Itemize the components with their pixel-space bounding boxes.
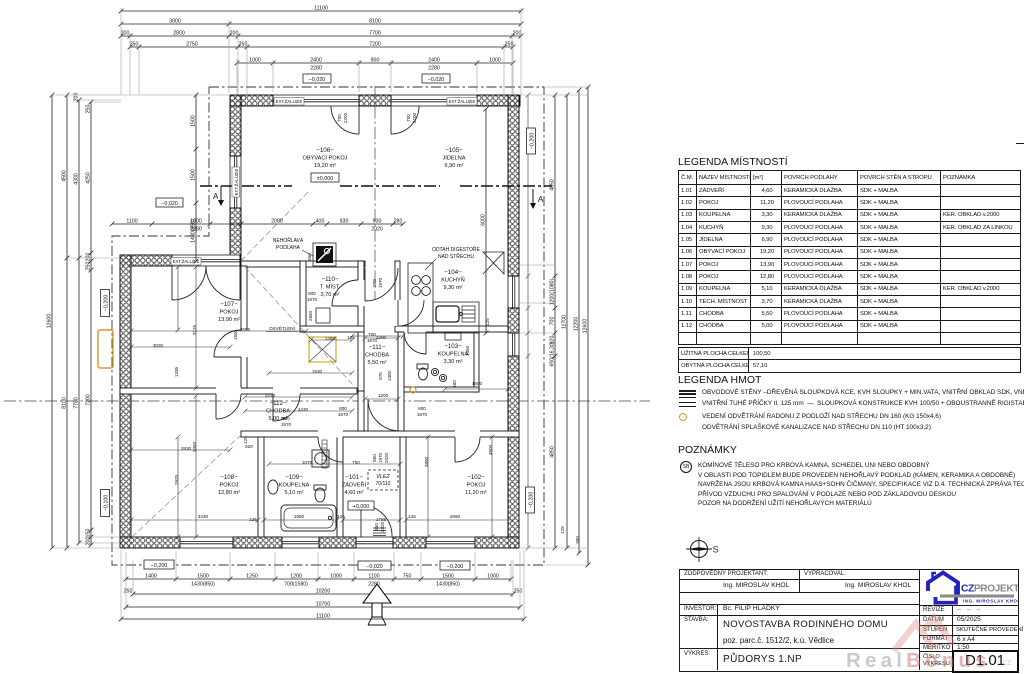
svg-text:800: 800 [308,291,316,296]
svg-text:1400: 1400 [145,574,157,580]
partition room 1.07 right [241,266,247,388]
svg-text:1970: 1970 [281,422,292,427]
svg-text:300: 300 [575,536,580,544]
door corridor bottom [368,399,400,431]
svg-text:−0,020: −0,020 [366,564,383,570]
radon vent symbol (orange circle) [679,413,687,421]
svg-text:400: 400 [452,380,457,388]
level label &#8722;0,020 [156,198,183,207]
north arrow [363,584,391,625]
axis line [4,400,650,402]
dimension chain interior left vertical [194,93,199,264]
partition hall 1.11 right lower [398,332,404,431]
washbasin bath 1.09 [268,480,278,494]
svg-text:2400: 2400 [310,58,322,64]
door gap kitchen [395,300,401,326]
double door left wing [172,266,240,300]
svg-text:1200(1080): 1200(1080) [550,278,556,305]
svg-text:900: 900 [371,58,380,64]
door gap room 1.08 [216,388,241,395]
fireplace stove [313,243,336,266]
label fireproof floor [273,236,313,256]
highlight box tech room [309,337,336,362]
ext blinds label top-left [274,98,304,106]
roof hip diagonal 2 [132,435,241,537]
svg-text:10700: 10700 [316,602,331,608]
svg-text:11700: 11700 [562,315,568,329]
dimension chain left 4500-8100 [65,93,70,551]
svg-text:1000: 1000 [330,574,342,580]
svg-text:5,50 m²: 5,50 m² [368,360,387,366]
svg-text:700: 700 [550,317,556,326]
room label room 1.07 [218,301,240,323]
partition hall1.01/room1.02 [400,437,406,537]
room label living room [303,147,348,169]
french doors top [331,106,419,134]
svg-text:.cz: .cz [1000,657,1012,667]
svg-text:NAD STŘECHU: NAD STŘECHU [438,252,475,260]
svg-text:200: 200 [86,537,92,546]
dimension chain bottom 10700 [124,605,523,610]
washbasin bath 1.03 [445,333,461,340]
dimension chain left detail [89,100,94,548]
svg-text:S: S [713,545,719,556]
svg-text:−0,020: −0,020 [428,77,445,83]
svg-text:200: 200 [74,93,80,102]
svg-text:1000: 1000 [249,58,261,64]
legend of rooms: table [678,170,1021,345]
bottom extension lines [121,550,524,622]
dimension chain top window chain [235,61,516,66]
svg-text:ODTAH DIGESTOŘE: ODTAH DIGESTOŘE [432,245,481,253]
level label &#8722;0,100 [101,490,110,517]
door in left wing top wall [172,254,240,266]
drawing number box D1.01 [952,650,1019,673]
exterior wall top (left wing) [120,255,241,266]
svg-text:OSVĚTLENÍ: OSVĚTLENÍ [269,324,296,331]
exterior wall left (upper block) [230,95,241,261]
svg-text:70/110: 70/110 [376,481,391,487]
level label &#8722;0,020 [422,74,450,83]
svg-text:RealBonus: RealBonus [846,649,991,672]
svg-text:200: 200 [513,31,522,37]
svg-text:NEHOŘLAVÁ: NEHOŘLAVÁ [273,236,304,244]
svg-text:1500: 1500 [197,574,209,580]
partition tech room left [300,261,306,332]
partition stub corridor top [358,261,365,267]
svg-text:1430(850): 1430(850) [191,582,215,588]
svg-text:150: 150 [86,529,92,538]
svg-text:JÍDELNA: JÍDELNA [442,155,465,162]
notes: title [678,444,737,456]
svg-text:125: 125 [249,517,257,522]
svg-text:−109−: −109− [285,474,303,481]
svg-text:KUCHYŇ: KUCHYŇ [441,277,465,284]
svg-text:1000: 1000 [489,58,501,64]
glazed door-window west [273,94,359,106]
title block texts [684,571,768,577]
glazed door-window east [391,94,477,106]
title block right column [923,607,945,613]
svg-text:250: 250 [86,105,92,114]
radon vent pipes [431,368,446,381]
secondary right chain [526,93,531,551]
svg-text:250: 250 [130,42,139,48]
svg-text:POKOJ: POKOJ [467,483,486,489]
partition below living room [241,261,358,267]
partition kitchen left [395,261,400,326]
svg-text:1970: 1970 [367,338,378,343]
dimension chain top 3000-8100 [119,22,524,27]
compass symbol [680,531,722,569]
window left wall (living room) [229,156,241,208]
window right wall (bathroom 1.03) [507,333,519,356]
svg-text:−102−: −102− [467,474,485,481]
doors [172,106,480,537]
right edge tick [1016,143,1024,144]
dimension chain right 12600 [586,85,591,568]
dimension chain top 250-2750 [128,45,516,50]
svg-text:3000: 3000 [169,19,181,25]
svg-text:−106−: −106− [316,147,334,154]
svg-text:1970: 1970 [307,297,318,302]
level label &#8722;0,020 [358,561,391,570]
svg-text:12200: 12200 [574,317,580,332]
svg-text:−110−: −110− [321,276,338,283]
level label &#8722;0,200 [101,290,110,317]
svg-text:250: 250 [514,589,523,595]
wc bath 1.09 [314,485,326,502]
door gap room 1.02 [455,431,480,438]
ext blinds label left wall [232,167,240,197]
note SB chimney symbol [680,461,692,473]
window right wall (kitchen) [507,276,519,308]
exterior wall top (upper block) [230,95,520,106]
ext blinds label top-right [447,98,477,106]
room label hall 1.11 [365,344,389,366]
door gap bath 1.09 [318,431,343,438]
title block grid lines [799,569,800,592]
kitchen counter [408,263,479,333]
svg-text:400: 400 [316,219,325,225]
svg-text:7200: 7200 [86,394,92,406]
svg-text:1970: 1970 [417,412,428,417]
dimension chain bottom window chain [124,577,514,582]
svg-text:−104−: −104− [444,269,462,276]
entrance door [361,505,392,537]
svg-text:−108−: −108− [220,474,238,481]
svg-text:12,80 m²: 12,80 m² [218,490,240,496]
highlight box left wall [98,330,113,368]
kitchen hob [412,276,431,296]
svg-text:125: 125 [485,318,490,326]
radon vent orange [410,387,416,393]
room label dining room [442,147,465,169]
svg-text:200: 200 [121,31,130,37]
svg-text:1300: 1300 [387,370,392,381]
small dimension labels [153,291,483,522]
svg-text:700: 700 [406,114,411,122]
svg-text:−0,200: −0,200 [447,564,464,570]
room label bathroom 1.09 [279,474,310,496]
exterior wall bottom [120,537,519,548]
svg-text:POKOJ: POKOJ [220,483,239,489]
door corridor top [365,268,398,301]
dimension chain bottom 10200 [131,592,516,597]
room label hall 1.12 [266,400,290,422]
svg-text:A: A [213,192,219,201]
ext blinds label wing [171,258,201,266]
svg-text:1050: 1050 [465,345,470,356]
level label +0,000 [348,501,374,510]
window bottom wall (room 1.08) [180,536,233,548]
right extension lines [519,87,588,565]
svg-text:125: 125 [408,514,416,519]
svg-text:125: 125 [560,526,565,534]
material symbol: exterior wall triple line [679,390,696,392]
svg-text:CHODBA: CHODBA [365,353,389,359]
bathtub [281,505,336,531]
dimension chain top total 11100 [119,9,524,14]
svg-text:4850: 4850 [550,446,556,458]
svg-text:2200: 2200 [412,112,417,123]
room label room 1.02 [465,474,487,496]
svg-text:4300: 4300 [74,173,80,185]
svg-text:CHODBA: CHODBA [266,409,290,415]
legend of materials: title [678,374,761,386]
partition below kitchen [395,326,508,332]
svg-text:800: 800 [418,406,426,411]
dimension chain left total 12600 [50,93,55,551]
svg-text:EXT.ŽALUZIE: EXT.ŽALUZIE [234,168,239,195]
room label bathroom 1.03 [438,343,469,365]
svg-text:−105−: −105− [445,147,463,154]
svg-text:−103−: −103− [444,343,462,350]
svg-text:2690: 2690 [450,514,461,519]
svg-text:8100: 8100 [62,397,68,409]
partition mid horizontal [241,431,519,437]
door gap room 1.07 [241,330,248,357]
boiler tech room [316,308,330,323]
level label &#8722;0,200 [144,560,174,569]
svg-text:−0,100: −0,100 [104,495,110,512]
svg-text:−107−: −107− [220,301,238,308]
svg-text:200: 200 [86,253,92,262]
svg-text:850: 850 [374,523,379,531]
door gap tech room [358,280,365,306]
partition bathroom 1.03 right [474,332,479,392]
svg-text:700(1580): 700(1580) [284,582,308,588]
svg-text:700: 700 [337,114,342,122]
level label &#177;0,000 [311,173,339,182]
svg-text:650(16,30): 650(16,30) [550,341,556,366]
svg-text:19,20 m²: 19,20 m² [314,163,336,169]
svg-text:280: 280 [394,219,403,225]
svg-text:1970: 1970 [378,452,383,463]
svg-text:±0,000: ±0,000 [317,176,333,182]
svg-text:−0,200: −0,200 [104,295,110,312]
svg-text:2650: 2650 [308,310,313,321]
svg-text:−111−: −111− [369,344,386,351]
svg-text:13,90 m²: 13,90 m² [218,317,240,323]
svg-text:4850: 4850 [550,179,556,191]
door gap bath 1.03 [404,332,426,339]
dimension chain interior chain upper [110,222,406,227]
svg-text:11100: 11100 [316,614,330,620]
svg-text:2020: 2020 [371,227,383,233]
svg-text:11100: 11100 [314,6,328,12]
dimension chain bottom total 11100 [119,617,527,622]
svg-text:7200: 7200 [369,42,381,48]
svg-text:11,20 m²: 11,20 m² [465,490,487,496]
svg-text:9,30 m²: 9,30 m² [444,285,463,291]
svg-text:2750: 2750 [186,42,198,48]
svg-text:800: 800 [282,416,290,421]
center axis upper block [374,86,376,300]
door room 1.08 [216,394,241,419]
svg-text:750: 750 [403,574,412,580]
top extension lines [121,8,521,95]
svg-text:−0,020: −0,020 [161,201,178,207]
door kitchen [398,300,424,326]
attic access VLEZ [368,470,398,490]
svg-text:VLEZ: VLEZ [376,474,390,480]
svg-text:250: 250 [239,42,248,48]
kitchen sink [436,306,475,322]
door gap hall 1.12 [273,388,300,395]
svg-text:2200: 2200 [343,112,348,123]
level label &#8722;0,200 [527,128,536,154]
roof overhang outline [112,87,544,565]
svg-text:250: 250 [86,262,92,271]
svg-text:2400: 2400 [428,58,440,64]
svg-text:1100: 1100 [126,219,137,225]
door bath 1.03 [404,332,426,354]
door room 1.02 [455,437,480,462]
partition tech room bottom [300,326,364,332]
label cooker hood vent [425,245,481,270]
svg-text:POKOJ: POKOJ [220,310,239,316]
partition hall 1.11 left lower [358,391,364,431]
svg-text:250: 250 [124,589,133,595]
svg-text:1950: 1950 [294,514,305,519]
svg-text:125: 125 [243,436,248,444]
svg-text:12600: 12600 [47,314,53,329]
svg-text:8100: 8100 [369,19,381,25]
left extension lines [52,95,230,548]
dimension chain right detail [553,93,558,551]
svg-text:−0,200: −0,200 [151,563,168,569]
svg-text:7700: 7700 [74,397,80,409]
svg-text:2020: 2020 [380,521,385,532]
svg-text:975: 975 [378,372,383,380]
entrance threshold [373,528,386,536]
RealBonus watermark [840,606,1024,674]
room label entry hall 1.01 [342,474,367,496]
level label &#8722;0,200 [440,561,470,570]
partition bath1.09/hall1.01 [337,437,343,537]
svg-text:PODLAHA: PODLAHA [276,245,301,251]
door tech room [332,280,358,306]
svg-text:12600: 12600 [583,319,589,334]
label lighting [266,324,298,332]
svg-text:3430: 3430 [198,514,209,519]
svg-text:300: 300 [372,279,377,287]
floor plan [0,0,670,674]
logo house icon [928,573,958,605]
door hall 1.12 [273,394,300,421]
svg-text:1600: 1600 [472,381,483,386]
svg-text:1200: 1200 [290,574,302,580]
svg-text:6,90 m²: 6,90 m² [445,163,464,169]
svg-text:−0,200: −0,200 [529,492,535,509]
svg-text:850: 850 [372,454,377,462]
svg-text:A: A [538,195,544,204]
svg-text:450: 450 [307,253,312,261]
CZPROJEKT logo [921,569,1018,605]
partition bathroom 1.03 bottom [398,387,479,392]
svg-text:1970: 1970 [338,412,349,417]
svg-text:4,60 m²: 4,60 m² [345,490,364,496]
dimension chain right 12200 [577,88,582,556]
level label &#8722;0,200 [526,487,535,513]
svg-text:5,10 m²: 5,10 m² [285,490,304,496]
dimension chain interior dining vertical [484,107,489,336]
svg-text:2280: 2280 [428,66,440,72]
room label tech room 1.10 [320,276,341,298]
svg-text:T. MÍST.: T. MÍST. [320,284,341,291]
svg-text:EXT.ŽALUZIE: EXT.ŽALUZIE [276,99,303,104]
svg-text:1755: 1755 [376,517,387,522]
svg-text:200: 200 [230,31,239,37]
svg-text:1500: 1500 [442,574,454,580]
svg-text:−112−: −112− [269,400,286,407]
svg-text:3,30 m²: 3,30 m² [444,359,463,365]
door room 1.07 [214,330,241,357]
svg-text:2280: 2280 [310,66,322,72]
svg-text:1430(850): 1430(850) [191,219,197,243]
svg-text:10200: 10200 [316,589,331,595]
svg-text:930: 930 [340,219,349,225]
svg-text:−101−: −101− [345,474,363,481]
svg-text:1250: 1250 [246,574,258,580]
washing machine [312,450,329,467]
legend summary rows [678,347,1021,373]
svg-text:ZÁDVEŘÍ: ZÁDVEŘÍ [342,481,367,489]
svg-text:1970: 1970 [378,277,383,288]
svg-text:2000: 2000 [271,219,283,225]
svg-text:1500: 1500 [191,169,197,181]
svg-text:KOUPELNA: KOUPELNA [438,352,469,358]
svg-text:7700: 7700 [369,31,381,37]
dimension chain top 200-2800 [119,34,524,39]
exterior wall right [508,95,519,548]
svg-text:4500: 4500 [62,170,68,182]
svg-text:1100: 1100 [368,574,379,580]
dimension chain right 11700 [565,93,570,551]
room label kitchen 1.04 [441,269,465,291]
svg-text:1500: 1500 [191,115,197,127]
roof hip diagonal 1 [245,267,354,386]
material symbol: partition double line [679,402,696,404]
exterior wall left (main body) [120,255,131,548]
legend of rooms: title [678,156,788,168]
svg-text:CZPROJEKT: CZPROJEKT [961,584,1018,595]
roof hip diagonal 3 [241,190,310,261]
svg-text:6000: 6000 [481,214,487,226]
svg-text:EXT.ŽALUZIE: EXT.ŽALUZIE [449,99,476,104]
level label &#8722;0,020 [303,74,331,83]
